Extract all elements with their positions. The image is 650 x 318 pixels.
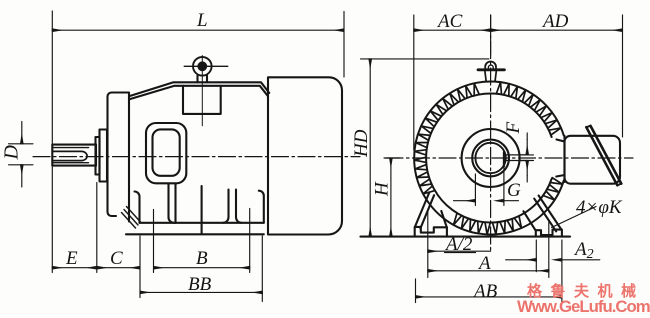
ground line right view xyxy=(361,236,571,238)
centerline vertical right view xyxy=(490,15,492,253)
terminal box on top xyxy=(183,86,221,114)
right foot leg outer double xyxy=(534,196,561,232)
centerline horizontal right view xyxy=(386,157,633,159)
ext line shaft end xyxy=(51,11,53,273)
dim AD xyxy=(491,29,623,31)
leader 4xK xyxy=(552,207,597,228)
keyway lines xyxy=(504,155,529,161)
ext AD right xyxy=(622,15,624,137)
svg-text:A2: A2 xyxy=(573,239,594,262)
shaft shoulder step xyxy=(95,145,97,166)
bearing cap ring xyxy=(96,137,100,175)
eyebolt ring xyxy=(193,57,212,76)
terminal box neck xyxy=(556,136,564,182)
eyebolt front inner xyxy=(488,65,493,70)
eyebolt center xyxy=(197,61,207,71)
dim G xyxy=(454,200,476,202)
center ext top xyxy=(490,15,492,55)
svg-text:E: E xyxy=(65,248,78,269)
right foot pad xyxy=(536,230,562,237)
dim A/2 xyxy=(428,250,491,252)
clamp bar diagonal xyxy=(586,126,621,186)
svg-text:D: D xyxy=(1,145,23,161)
keyway edge lines xyxy=(53,148,89,163)
left foot leg outer double xyxy=(415,193,434,229)
HD top ext xyxy=(361,58,490,60)
svg-text:H: H xyxy=(372,181,393,197)
fan cowl xyxy=(268,77,342,234)
rib pair right xyxy=(223,190,242,223)
clamp bar top cap xyxy=(586,126,621,186)
eyebolt base xyxy=(198,76,208,83)
ext line foot front xyxy=(139,236,141,298)
eyebolt crossbar xyxy=(184,65,228,67)
dim A2 xyxy=(506,259,537,261)
foot pad top line xyxy=(140,222,264,224)
left foot leg inner xyxy=(441,211,447,228)
inner rounded rect outer xyxy=(146,123,186,183)
svg-text:4×φK: 4×φK xyxy=(576,197,623,218)
dim H xyxy=(390,158,392,237)
G ext lines xyxy=(475,167,504,206)
dim B xyxy=(154,267,250,269)
dim BB xyxy=(140,291,262,293)
ground line xyxy=(126,233,264,235)
H top ext xyxy=(384,157,400,159)
svg-text:Www.GeLufu.Com: Www.GeLufu.Com xyxy=(517,297,650,316)
svg-text:AD: AD xyxy=(541,11,569,32)
ext A/2 A AB left xyxy=(427,212,429,278)
body top double line xyxy=(129,82,269,99)
foot bevel hatch xyxy=(122,207,141,229)
ext right foot xyxy=(536,220,562,302)
inner rounded rect inner xyxy=(153,129,180,175)
shaft xyxy=(52,145,96,166)
dim HD xyxy=(369,59,371,237)
shaft circle xyxy=(475,143,505,173)
eyebolt base front xyxy=(485,71,496,82)
ext AC left xyxy=(413,15,415,150)
mid drain line xyxy=(201,186,203,234)
eyebolt crossbar front xyxy=(478,68,504,71)
left foot pad xyxy=(415,227,447,237)
key (bullet outline) xyxy=(53,151,87,160)
right foot outer leg xyxy=(259,191,264,223)
svg-text:A: A xyxy=(477,253,491,274)
ext line L right xyxy=(343,12,345,78)
dim D arrows xyxy=(21,122,23,144)
fin tip circle xyxy=(414,82,564,235)
svg-text:BB: BB xyxy=(188,274,212,295)
eyebolt stem line xyxy=(201,56,203,126)
bearing cap outer xyxy=(100,130,108,182)
svg-text:AC: AC xyxy=(436,11,463,32)
ext line shoulder xyxy=(96,183,98,273)
dim A xyxy=(428,270,549,272)
A/2 underline xyxy=(445,252,476,254)
dim E C xyxy=(52,267,97,269)
dim AB xyxy=(416,296,562,298)
centerline left view xyxy=(33,156,360,158)
F ext ticks xyxy=(521,155,534,161)
dim AC xyxy=(414,29,491,31)
left foot front leg xyxy=(135,192,140,223)
right foot leg inner xyxy=(523,211,535,230)
svg-text:C: C xyxy=(110,248,123,269)
svg-text:G: G xyxy=(507,180,521,201)
svg-text:B: B xyxy=(196,248,208,269)
dim D ext lines xyxy=(9,144,34,165)
ext line hole right xyxy=(249,209,251,273)
keyway flat xyxy=(503,152,505,166)
dim L xyxy=(52,29,344,31)
fin base circle xyxy=(426,93,551,222)
ext line hole left xyxy=(153,210,155,273)
eyebolt front loop xyxy=(485,62,496,70)
left foot rear leg xyxy=(168,184,176,223)
svg-text:A/2: A/2 xyxy=(444,234,473,255)
boss circle xyxy=(462,129,520,187)
ext line foot rear xyxy=(261,236,263,302)
shaft outer circle xyxy=(472,140,509,177)
terminal box body xyxy=(565,136,621,184)
cooling fins xyxy=(414,82,562,234)
svg-text:HD: HD xyxy=(351,129,372,158)
svg-text:L: L xyxy=(196,10,208,31)
dim F xyxy=(526,140,528,155)
svg-text:F: F xyxy=(503,122,524,135)
front end bracket xyxy=(108,93,130,222)
rib channel xyxy=(174,184,176,223)
svg-text:AB: AB xyxy=(472,281,498,302)
